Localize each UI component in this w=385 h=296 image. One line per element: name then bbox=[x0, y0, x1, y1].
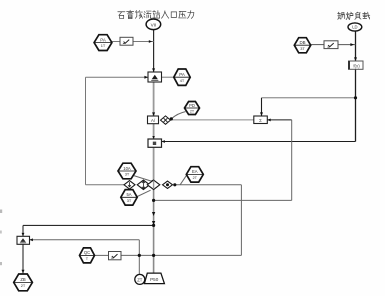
hexagon PA1 bbox=[94, 35, 112, 51]
wire: sum box right input riser bbox=[267, 119, 291, 121]
hexagon 10A bbox=[118, 163, 136, 179]
arrow into sum box top bbox=[260, 112, 263, 116]
wire: f(x) down to corner y141.5 bbox=[355, 69, 357, 141]
wire: ZT riser x139 bbox=[138, 240, 140, 275]
transfer block T1 bbox=[148, 72, 162, 82]
svg-text:3T: 3T bbox=[300, 46, 305, 51]
node diamond row out bbox=[173, 183, 176, 186]
AM station box bbox=[17, 236, 30, 244]
arrow into hexagon ZB bbox=[21, 270, 24, 274]
node main y255 bbox=[152, 254, 155, 257]
title text 锅炉负载 bbox=[338, 12, 370, 20]
wire: left riser to diamond D1 bbox=[86, 184, 125, 186]
hexagon PA2 bbox=[174, 69, 190, 85]
arrow down main line y225 bbox=[152, 221, 155, 225]
rate limiter box A/ bbox=[148, 116, 159, 124]
wire: main vertical diamond D3 down to trapezoid drive bbox=[153, 189, 155, 273]
wire: left riser down from y77 to diamond row bbox=[85, 77, 87, 185]
wire: T1 to hexagon PA2 bbox=[162, 76, 174, 78]
function generator f(x) bbox=[348, 61, 363, 69]
diamond D2 raise-lower bbox=[137, 180, 149, 189]
node f(x) branch bbox=[354, 96, 357, 99]
arrow into T1 top bbox=[152, 68, 155, 72]
node main y225 bbox=[152, 224, 155, 227]
svg-text:2T: 2T bbox=[190, 110, 195, 114]
scan speck left edge 2 bbox=[0, 231, 2, 234]
hexagon ZB bbox=[14, 274, 33, 291]
arrow into b box right bbox=[162, 140, 165, 143]
svg-text:QC: QC bbox=[84, 250, 90, 255]
svg-text:EA: EA bbox=[192, 169, 198, 174]
hexagon EA bbox=[186, 167, 203, 182]
wire: main vertical T1 down to A/ box bbox=[153, 82, 155, 116]
quality check box 2 bbox=[324, 41, 338, 49]
diamond D1 lower bbox=[124, 181, 135, 189]
svg-text:2T: 2T bbox=[21, 283, 26, 288]
arrow into A/ box top bbox=[152, 112, 155, 116]
svg-text:3T: 3T bbox=[125, 172, 130, 177]
svg-text:PA: PA bbox=[100, 37, 106, 42]
svg-text:4T: 4T bbox=[180, 78, 185, 83]
wire: bottom horizontal y255 bbox=[121, 254, 241, 256]
svg-text:3T: 3T bbox=[127, 198, 132, 203]
node 10A tap bbox=[151, 180, 154, 183]
wire: diagonal hexagon 5A to diamond D3 bbox=[137, 190, 150, 196]
hexagon 5A bbox=[121, 190, 137, 206]
svg-text:PA: PA bbox=[179, 72, 185, 77]
svg-text:2T: 2T bbox=[193, 176, 198, 180]
arrow down main line y216 bbox=[152, 212, 155, 216]
diamond D3 on main line bbox=[147, 180, 160, 189]
node X diamond out bbox=[170, 117, 173, 120]
title text 石膏旋流站入口压力 bbox=[118, 10, 194, 18]
transmitter bubble PT bbox=[146, 19, 161, 30]
wire: main vertical b box down to diamond D3 bbox=[153, 147, 155, 180]
diamond D4 with dot bbox=[163, 181, 173, 188]
arrow into f(x) top bbox=[354, 57, 357, 61]
wire: diagonal hexagon 10A to main line bbox=[134, 176, 153, 182]
wire: hexagon DB to checkbox bbox=[311, 44, 324, 46]
svg-text:P50: P50 bbox=[150, 277, 159, 282]
transmitter bubble LD bbox=[348, 23, 362, 31]
scan speck left edge 3 bbox=[0, 262, 2, 265]
arrow into AM box top bbox=[22, 233, 25, 236]
arrow into b box top bbox=[152, 136, 155, 139]
wire: PT bubble down to transfer box T1 bbox=[153, 30, 155, 73]
node main-riser branch bbox=[152, 199, 155, 202]
wire: diamond row right segment to EA corner bbox=[175, 184, 242, 186]
svg-text:10A: 10A bbox=[123, 166, 131, 171]
svg-text:1T: 1T bbox=[101, 43, 106, 48]
wire: hexagon QC to checkbox bbox=[94, 254, 108, 256]
wire: branch y96 left from LD vertical bbox=[262, 97, 356, 99]
multiplier X diamond bbox=[161, 116, 171, 124]
wire: AM station top drop bbox=[22, 225, 24, 236]
wire: X diamond output to sum box bbox=[171, 119, 254, 121]
arrow on top-left check line bbox=[149, 40, 152, 43]
arrow into T1 left bbox=[144, 76, 148, 79]
hexagon PD bbox=[185, 102, 200, 115]
arrow into sum box right bbox=[267, 118, 270, 121]
actuator trapezoid P50 bbox=[144, 273, 164, 284]
svg-text:VII: VII bbox=[151, 22, 157, 27]
scan speck left edge 1 bbox=[0, 210, 2, 214]
wire: T1 left input from left riser bbox=[86, 76, 149, 78]
wire: hexagon PA1 to checkbox bbox=[112, 41, 120, 43]
wire: quality check to main vertical (top left) bbox=[133, 41, 154, 43]
proportional block b bbox=[148, 139, 162, 147]
wire: LD bubble down to f(x) bbox=[355, 31, 357, 61]
summer box bbox=[254, 116, 267, 124]
svg-text:ZB: ZB bbox=[20, 277, 26, 282]
wire: AM station right input bbox=[30, 239, 140, 241]
hexagon DB bbox=[294, 38, 310, 53]
wire: EA drop vertical bbox=[240, 185, 242, 256]
hexagon QC bbox=[80, 248, 95, 263]
wire: AM station output down to hexagon ZB bbox=[22, 244, 24, 273]
quality check box 3 bbox=[109, 252, 122, 260]
position transmitter ZT bbox=[135, 274, 145, 284]
svg-text:ZT: ZT bbox=[137, 277, 143, 282]
node ZT y255 bbox=[138, 254, 141, 257]
wire: corner left to b box right input bbox=[162, 141, 356, 143]
arrow into AM box right bbox=[30, 238, 33, 241]
quality check box 1 bbox=[120, 37, 133, 45]
wire: main vertical to AM station horizontal y225 bbox=[23, 224, 154, 226]
arrow on DB check line bbox=[350, 43, 354, 46]
wire: diagonal PD hexagon to X diamond bbox=[172, 112, 186, 119]
wire: DB checkbox to LD vertical bbox=[338, 44, 356, 46]
svg-text:PD: PD bbox=[189, 103, 195, 108]
svg-text:5A: 5A bbox=[126, 192, 131, 197]
wire: main vertical A/ box to b box bbox=[153, 124, 155, 139]
wire: diagonal EA hexagon tap bbox=[180, 175, 187, 185]
wire: branch main vertical to riser x291 bbox=[154, 199, 292, 201]
svg-text:A/: A/ bbox=[151, 118, 156, 123]
svg-text:DB: DB bbox=[299, 40, 305, 45]
svg-text:f(x): f(x) bbox=[353, 64, 360, 69]
wire: branch down into sum box top bbox=[261, 98, 263, 116]
svg-text:Σ: Σ bbox=[259, 118, 262, 123]
svg-text:LD: LD bbox=[352, 25, 357, 30]
